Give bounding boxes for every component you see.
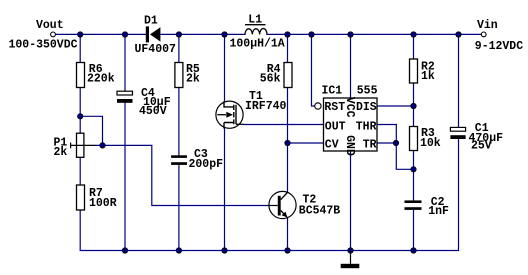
svg-text:100R: 100R xyxy=(89,197,117,210)
svg-text:2k: 2k xyxy=(54,146,68,159)
svg-text:D1: D1 xyxy=(144,14,158,27)
svg-text:220k: 220k xyxy=(87,73,115,86)
svg-text:1k: 1k xyxy=(421,70,435,83)
svg-text:TR: TR xyxy=(363,138,377,151)
svg-text:THR: THR xyxy=(356,121,377,134)
svg-text:CV: CV xyxy=(325,138,339,151)
svg-text:DIS: DIS xyxy=(356,101,377,114)
svg-text:L1: L1 xyxy=(248,13,262,26)
svg-text:100µH/1A: 100µH/1A xyxy=(230,38,285,51)
svg-text:Vout: Vout xyxy=(36,19,64,32)
svg-text:BC547B: BC547B xyxy=(299,205,341,218)
svg-text:10k: 10k xyxy=(420,137,441,150)
svg-text:IC1: IC1 xyxy=(322,85,343,98)
svg-text:100-350VDC: 100-350VDC xyxy=(9,39,78,52)
svg-text:200pF: 200pF xyxy=(189,158,224,171)
svg-text:25V: 25V xyxy=(471,140,492,153)
svg-text:9-12VDC: 9-12VDC xyxy=(475,40,523,53)
svg-text:450V: 450V xyxy=(139,105,167,118)
svg-text:555: 555 xyxy=(357,85,378,98)
svg-text:1nF: 1nF xyxy=(428,205,449,218)
svg-text:OUT: OUT xyxy=(325,121,346,134)
svg-text:UF4007: UF4007 xyxy=(135,43,177,56)
svg-text:RST: RST xyxy=(324,101,345,114)
svg-text:Vin: Vin xyxy=(477,19,498,32)
svg-text:IRF740: IRF740 xyxy=(245,100,287,113)
svg-text:GND: GND xyxy=(343,135,356,156)
svg-text:2k: 2k xyxy=(186,73,200,86)
svg-text:VCC: VCC xyxy=(343,97,356,118)
svg-text:56k: 56k xyxy=(260,73,281,86)
